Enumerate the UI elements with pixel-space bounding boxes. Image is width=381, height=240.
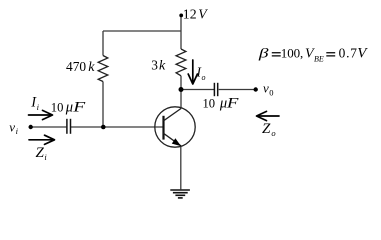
svg-text:470k: 470k <box>66 59 95 75</box>
svg-text:10μ: 10μ <box>203 96 228 112</box>
svg-text:12V: 12V <box>183 7 208 22</box>
svg-text:β: β <box>258 45 269 61</box>
svg-text:F: F <box>72 99 86 115</box>
svg-text:10μ: 10μ <box>51 100 73 116</box>
svg-text:3k: 3k <box>151 58 166 74</box>
svg-text:F: F <box>226 95 239 111</box>
